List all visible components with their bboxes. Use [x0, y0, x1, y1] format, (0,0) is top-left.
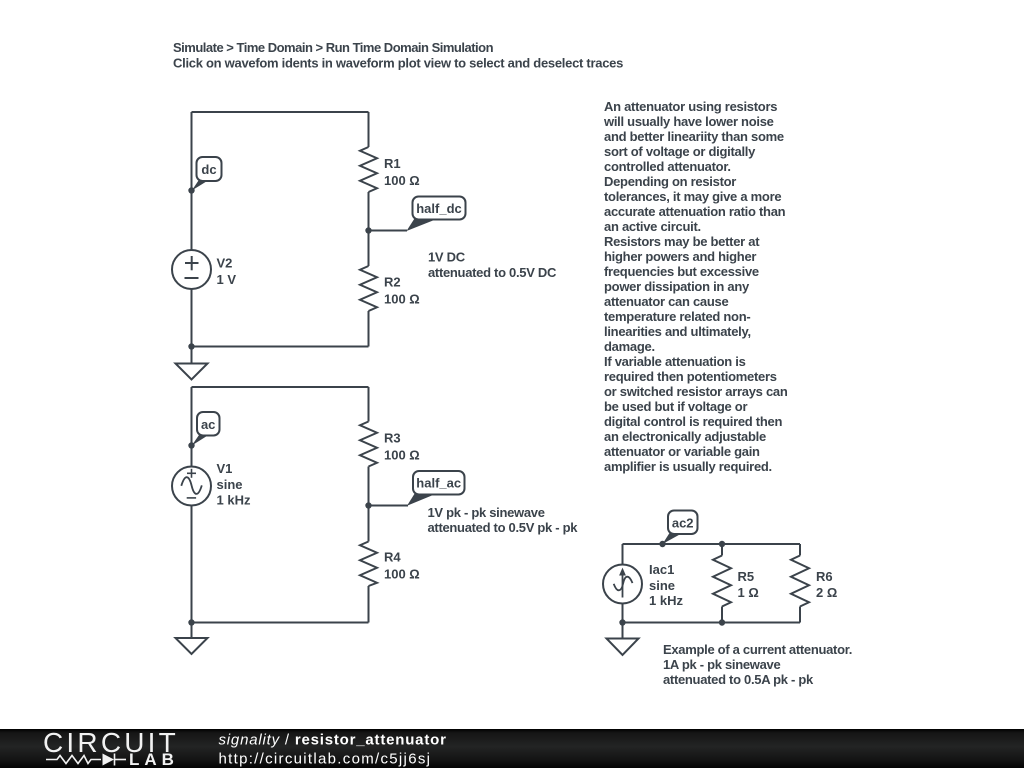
- svg-text:LAB: LAB: [129, 750, 179, 768]
- svg-text:attenuated to 0.5V DC: attenuated to 0.5V DC: [428, 265, 557, 280]
- svg-text:V2: V2: [217, 256, 233, 271]
- svg-text:attenuated to 0.5A pk - pk: attenuated to 0.5A pk - pk: [663, 672, 814, 687]
- svg-text:ac: ac: [201, 417, 215, 432]
- current source Iac1: [603, 562, 683, 608]
- wire: circuit1 right upper (to R1): [368, 112, 370, 147]
- wire: node half_dc stub: [369, 230, 408, 232]
- svg-text:half_ac: half_ac: [416, 476, 461, 491]
- svg-text:R3: R3: [384, 431, 401, 446]
- svg-text:an electronically adjustable: an electronically adjustable: [604, 429, 766, 444]
- resistor R3: [360, 422, 420, 467]
- svg-text:V1: V1: [217, 461, 233, 476]
- svg-text:attenuator or variable gain: attenuator or variable gain: [604, 444, 760, 459]
- svg-text:dc: dc: [201, 162, 216, 177]
- node label ac: [192, 412, 220, 446]
- node dot ac: [188, 442, 194, 448]
- wire: circuit1 right lower (R2 to bottom): [368, 311, 370, 347]
- svg-text:An attenuator using resistors: An attenuator using resistors: [604, 99, 777, 114]
- ground circuit1: [176, 364, 208, 380]
- node label ac2: [663, 511, 698, 545]
- wire: circuit2 bottom: [192, 622, 369, 624]
- svg-text:2 Ω: 2 Ω: [816, 585, 837, 600]
- resistor R4: [360, 542, 420, 587]
- svg-text:R5: R5: [738, 569, 755, 584]
- voltage source V1 (sine): [172, 461, 251, 508]
- svg-text:1 Ω: 1 Ω: [738, 585, 759, 600]
- svg-text:100 Ω: 100 Ω: [384, 448, 420, 463]
- node dot ac2: [659, 541, 665, 547]
- svg-text:Iac1: Iac1: [649, 562, 674, 577]
- CircuitLab logo schematic glyph: [46, 754, 126, 766]
- node dot half_ac: [365, 502, 371, 508]
- svg-text:temperature related non-: temperature related non-: [604, 309, 750, 324]
- svg-text:Example of a current attenuato: Example of a current attenuator.: [663, 642, 852, 657]
- node label half_ac: [407, 471, 465, 506]
- svg-text:1 V: 1 V: [217, 272, 237, 287]
- wire: circuit3 bottom: [623, 622, 801, 624]
- node label half_dc: [407, 197, 466, 232]
- wire: R6 top stub: [799, 544, 801, 556]
- svg-text:1 kHz: 1 kHz: [217, 493, 251, 508]
- svg-text:required then potentiometers: required then potentiometers: [604, 369, 777, 384]
- svg-text:half_dc: half_dc: [416, 201, 462, 216]
- svg-text:R6: R6: [816, 569, 833, 584]
- wire: circuit2 ground stub: [191, 623, 193, 639]
- svg-text:Click on wavefom idents in wav: Click on wavefom idents in waveform plot…: [173, 56, 623, 71]
- wire: Iac1 top stub: [622, 544, 624, 565]
- ground circuit3: [607, 639, 639, 656]
- svg-text:be used but if voltage or: be used but if voltage or: [604, 399, 747, 414]
- wire: circuit1 bottom: [192, 346, 369, 348]
- svg-text:R1: R1: [384, 156, 401, 171]
- svg-text:amplifier is usually required.: amplifier is usually required.: [604, 459, 772, 474]
- svg-text:100 Ω: 100 Ω: [384, 292, 420, 307]
- svg-text:100 Ω: 100 Ω: [384, 173, 420, 188]
- wire: circuit1 top: [192, 111, 369, 113]
- wire: circuit3 top: [623, 543, 801, 545]
- svg-text:100 Ω: 100 Ω: [384, 567, 420, 582]
- wire: circuit2 left lower: [191, 506, 193, 623]
- svg-text:or switched resistor arrays ca: or switched resistor arrays can: [604, 384, 788, 399]
- resistor R6: [791, 556, 837, 607]
- svg-text:R2: R2: [384, 275, 401, 290]
- svg-text:sort of voltage or digitally: sort of voltage or digitally: [604, 144, 756, 159]
- resistor R2: [360, 266, 420, 311]
- svg-text:R4: R4: [384, 550, 401, 565]
- svg-text:attenuated to 0.5V pk - pk: attenuated to 0.5V pk - pk: [428, 520, 579, 535]
- wire: circuit2 right upper (to R3): [368, 387, 370, 422]
- svg-text:tolerances, it may give a more: tolerances, it may give a more: [604, 189, 781, 204]
- svg-text:higher powers and higher: higher powers and higher: [604, 249, 756, 264]
- svg-text:1 kHz: 1 kHz: [649, 593, 683, 608]
- node dot dc: [188, 187, 194, 193]
- svg-text:http://circuitlab.com/c5jj6sj: http://circuitlab.com/c5jj6sj: [219, 751, 432, 768]
- resistor R5: [713, 556, 759, 607]
- ground circuit2: [176, 638, 208, 654]
- node dot half_dc: [365, 227, 371, 233]
- wire: R5 top stub: [721, 544, 723, 556]
- svg-text:controlled attenuator.: controlled attenuator.: [604, 159, 731, 174]
- svg-text:an active circuit.: an active circuit.: [604, 219, 701, 234]
- voltage source V2: [172, 250, 236, 289]
- svg-text:power dissipation in any: power dissipation in any: [604, 279, 750, 294]
- node dot R5 top: [719, 541, 725, 547]
- svg-text:1V DC: 1V DC: [428, 250, 466, 265]
- node dot circuit1 bottom-left: [188, 343, 194, 349]
- svg-text:will usually have lower noise: will usually have lower noise: [603, 114, 774, 129]
- svg-text:sine: sine: [649, 578, 675, 593]
- svg-text:signality / resistor_attenuato: signality / resistor_attenuator: [219, 732, 447, 749]
- wire: circuit3 ground stub: [622, 623, 624, 639]
- wire: R5 bottom stub: [721, 607, 723, 623]
- annotation current attenuator: [663, 642, 852, 687]
- wire: circuit2 right lower (R4 to bottom): [368, 586, 370, 623]
- svg-text:linearities and ultimately,: linearities and ultimately,: [604, 324, 751, 339]
- node label dc: [192, 157, 222, 191]
- node dot circuit3 bottom-left: [619, 619, 625, 625]
- svg-text:digital control is required th: digital control is required then: [604, 414, 782, 429]
- right explanatory paragraph: [603, 99, 788, 474]
- wire: node half_ac stub: [369, 505, 409, 507]
- svg-text:attenuator can cause: attenuator can cause: [604, 294, 728, 309]
- svg-text:Resistors may be better at: Resistors may be better at: [604, 234, 760, 249]
- svg-text:and better lineariity than som: and better lineariity than some: [604, 129, 784, 144]
- svg-text:accurate attenuation ratio tha: accurate attenuation ratio than: [604, 204, 786, 219]
- wire: circuit2 right middle (R3 to R4): [368, 467, 370, 542]
- svg-text:Depending on resistor: Depending on resistor: [604, 174, 736, 189]
- svg-text:frequencies but excessive: frequencies but excessive: [604, 264, 759, 279]
- wire: circuit1 left upper: [191, 112, 193, 250]
- wire: R6 bottom stub: [799, 607, 801, 623]
- wire: circuit1 ground stub: [191, 347, 193, 364]
- svg-text:ac2: ac2: [672, 516, 694, 531]
- annotation 1V pk-pk: [428, 505, 579, 535]
- svg-text:sine: sine: [217, 477, 243, 492]
- wire: circuit2 top: [192, 386, 369, 388]
- annotation 1V DC: [428, 250, 557, 281]
- node dot R5 bottom: [719, 619, 725, 625]
- wire: circuit2 left upper: [191, 387, 193, 466]
- svg-text:1A pk - pk sinewave: 1A pk - pk sinewave: [663, 657, 780, 672]
- wire: Iac1 bottom stub: [622, 604, 624, 623]
- footer bar: [0, 729, 1024, 768]
- svg-text:Simulate > Time Domain > Run T: Simulate > Time Domain > Run Time Domain…: [173, 40, 494, 55]
- svg-text:damage.: damage.: [604, 339, 655, 354]
- resistor R1: [360, 147, 420, 192]
- wire: circuit1 left lower: [191, 290, 193, 347]
- node dot circuit2 bottom-left: [188, 619, 194, 625]
- svg-text:1V pk - pk sinewave: 1V pk - pk sinewave: [428, 505, 545, 520]
- wire: circuit1 right middle (R1 to R2): [368, 192, 370, 266]
- svg-text:If variable attenuation is: If variable attenuation is: [604, 354, 746, 369]
